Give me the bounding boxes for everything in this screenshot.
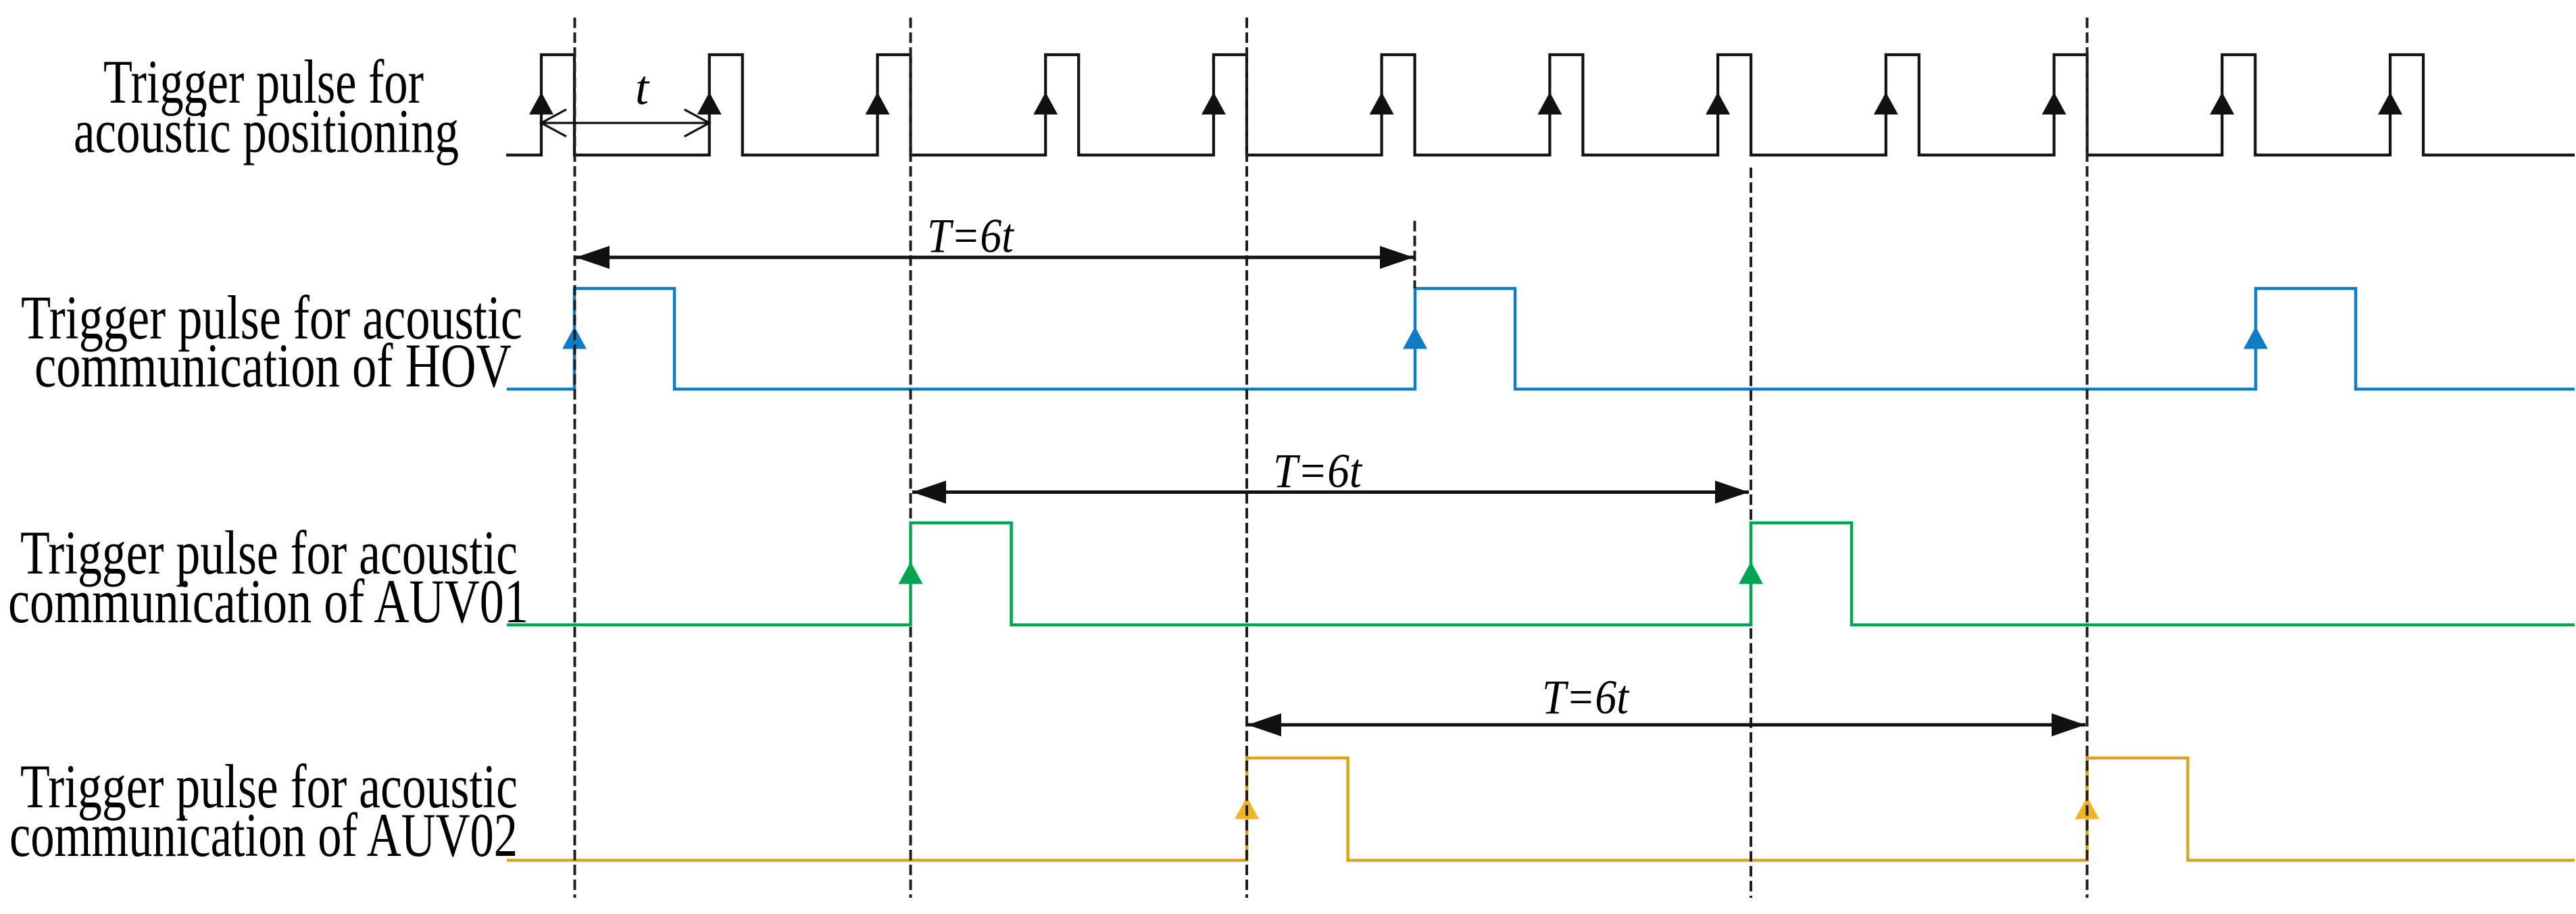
svg-text:communication of HOV: communication of HOV [34,331,512,400]
svg-text:communication of AUV01: communication of AUV01 [8,567,528,636]
green AUV01 trigger waveform [507,523,2575,625]
t dimension arrow [541,109,710,136]
green rising-edge arrowheads [899,562,1764,584]
svg-text:T=6t: T=6t [927,209,1015,263]
T=6t arrow row 3 (AUV01) [912,481,1749,504]
svg-text:T=6t: T=6t [1542,670,1630,724]
black positioning trigger waveform [506,55,2575,155]
orange rising-edge arrowheads [1235,797,2100,819]
svg-text:communication of AUV02: communication of AUV02 [9,801,518,869]
orange AUV02 trigger waveform [507,758,2575,861]
svg-text:T=6t: T=6t [1273,444,1363,498]
dashed line 5 [1750,168,1752,898]
dashed line 1 [574,18,576,898]
blue rising-edge arrowheads [562,327,2268,349]
T=6t arrow row 4 (AUV02) [1247,713,2085,736]
dashed line 4 [1414,221,1416,288]
svg-text:acoustic positioning: acoustic positioning [74,97,459,166]
svg-text:t: t [635,61,650,115]
T=6t arrow row 2 (HOV) [576,246,1414,269]
dashed line 2 [910,18,912,898]
blue HOV trigger waveform [507,288,2575,389]
black rising-edge arrowheads [529,93,2402,115]
dashed line 6 [2086,18,2089,898]
dashed line 3 [1245,18,1248,898]
